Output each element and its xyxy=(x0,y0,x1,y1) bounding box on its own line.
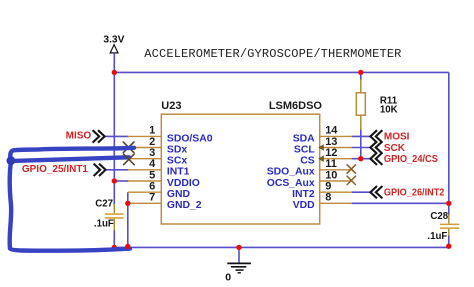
wire pin 13 SCL to SCK port xyxy=(352,147,372,149)
port chevron GPIO_24/CS xyxy=(370,153,382,165)
pin stubs left (pins 1-7) xyxy=(128,136,162,203)
svg-text:13: 13 xyxy=(325,136,337,148)
port chevron MOSI (left-pointing) xyxy=(370,130,382,142)
svg-text:U23: U23 xyxy=(161,100,181,112)
wire C27 bottom to ground rail xyxy=(113,230,115,248)
pin numbers right xyxy=(325,125,338,204)
svg-text:MISO: MISO xyxy=(66,131,92,142)
svg-text:SCK: SCK xyxy=(384,143,406,154)
freehand marker annotation (blue pen) xyxy=(10,148,134,251)
wire pin 14 SDA to MOSI port xyxy=(352,135,372,137)
junction dot pin 8 / right rail xyxy=(446,201,451,206)
svg-text:OCS_Aux: OCS_Aux xyxy=(267,178,315,189)
junction dot GND line / bottom rail (over marker) xyxy=(125,244,130,249)
svg-text:SDx: SDx xyxy=(167,144,187,155)
svg-text:SDA: SDA xyxy=(293,133,315,144)
wire GND vertical (pin6/pin7 to ground rail) xyxy=(127,192,129,247)
port chevron SCK xyxy=(370,141,382,153)
svg-text:C27: C27 xyxy=(95,199,113,210)
pin numbers left xyxy=(149,125,156,204)
svg-text:GPIO_25/INT1: GPIO_25/INT1 xyxy=(22,164,89,175)
wire MISO to pin 1 xyxy=(104,135,128,137)
wire R11 bottom to pin 12 xyxy=(360,129,362,159)
wire right rail xyxy=(448,72,450,215)
junction dot pin 7 xyxy=(125,201,130,206)
svg-text:INT1: INT1 xyxy=(167,167,190,178)
wire R11 top xyxy=(360,72,362,80)
pin names left xyxy=(167,133,213,211)
svg-text:GND_2: GND_2 xyxy=(167,200,202,211)
port chevron GPIO_26/INT2 xyxy=(370,186,382,198)
pin stubs right (pins 14-8) xyxy=(320,136,352,203)
power symbol 3.3V xyxy=(103,34,124,72)
svg-text:.1uF: .1uF xyxy=(94,219,114,230)
svg-text:ACCELEROMETER/GYROSCOPE/THERMO: ACCELEROMETER/GYROSCOPE/THERMOMETER xyxy=(144,47,401,61)
svg-text:10: 10 xyxy=(325,169,337,181)
pin 12 input arrowhead xyxy=(318,155,324,162)
capacitor C28 xyxy=(427,211,459,242)
wire pin 8 VDD to right rail xyxy=(352,202,449,204)
pin names right xyxy=(267,133,316,211)
junction dot ground stub xyxy=(236,245,241,250)
wire GPIO_25/INT1 to pin 4 xyxy=(106,169,129,171)
svg-text:GPIO_24/CS: GPIO_24/CS xyxy=(384,154,438,165)
svg-text:LSM6DSO: LSM6DSO xyxy=(269,100,323,112)
wire pin 12 CS to GPIO_24 port xyxy=(352,158,372,160)
wire 3.3V to pin 5 VDDIO xyxy=(114,180,128,182)
svg-text:C28: C28 xyxy=(430,211,448,222)
svg-text:11: 11 xyxy=(325,158,337,170)
wire 3.3V vertical drop to C27 xyxy=(113,72,115,205)
port chevron GPIO_25/INT1 xyxy=(94,164,106,176)
wire bottom ground rail xyxy=(114,246,449,248)
no-connect X pin 2 xyxy=(123,142,134,153)
junction dot 3.3V rail xyxy=(112,70,117,75)
junction dot C28 bottom xyxy=(446,244,451,249)
junction dot R11 top xyxy=(358,70,363,75)
junction dot C27 bottom xyxy=(112,245,117,250)
wire pin 9 INT2 to GPIO_26 port xyxy=(352,191,372,193)
no-connect X pin 10 xyxy=(347,176,355,184)
svg-text:.1uF: .1uF xyxy=(427,231,447,242)
pin 13 input arrowhead xyxy=(318,144,324,151)
svg-text:VDD: VDD xyxy=(293,200,315,211)
no-connect X pin 3 (over marker) xyxy=(124,154,135,165)
port chevron MISO (out, right-pointing) xyxy=(93,130,105,142)
wire right rail lower (C28 to bottom) xyxy=(448,235,450,247)
svg-text:INT2: INT2 xyxy=(292,189,315,200)
svg-text:SDO/SA0: SDO/SA0 xyxy=(167,133,213,144)
junction dot R11 / pin 12 xyxy=(358,156,363,161)
svg-text:MOSI: MOSI xyxy=(384,132,410,143)
svg-text:7: 7 xyxy=(149,192,155,204)
svg-text:GPIO_26/INT2: GPIO_26/INT2 xyxy=(384,188,445,199)
svg-text:10K: 10K xyxy=(380,104,398,115)
wire top rail 3.3V xyxy=(114,71,449,73)
svg-text:SCx: SCx xyxy=(167,156,187,167)
svg-text:8: 8 xyxy=(325,192,331,204)
IC U23 LSM6DSO body xyxy=(161,114,319,224)
no-connect X pin 11 xyxy=(347,165,355,173)
resistor R11 xyxy=(356,79,397,130)
svg-text:VDDIO: VDDIO xyxy=(167,178,200,189)
svg-text:0: 0 xyxy=(225,271,231,283)
ground symbol 0 xyxy=(225,247,251,283)
capacitor C27 xyxy=(94,199,124,231)
freehand marker corner blob xyxy=(6,156,15,165)
svg-text:2: 2 xyxy=(149,136,155,148)
svg-text:SCL: SCL xyxy=(294,144,315,155)
svg-text:CS: CS xyxy=(300,156,315,167)
svg-text:SDO_Aux: SDO_Aux xyxy=(267,167,315,178)
svg-text:GND: GND xyxy=(167,189,191,200)
svg-text:5: 5 xyxy=(149,169,155,181)
svg-text:4: 4 xyxy=(149,158,156,170)
junction dot VDDIO pin 5 xyxy=(112,178,117,183)
